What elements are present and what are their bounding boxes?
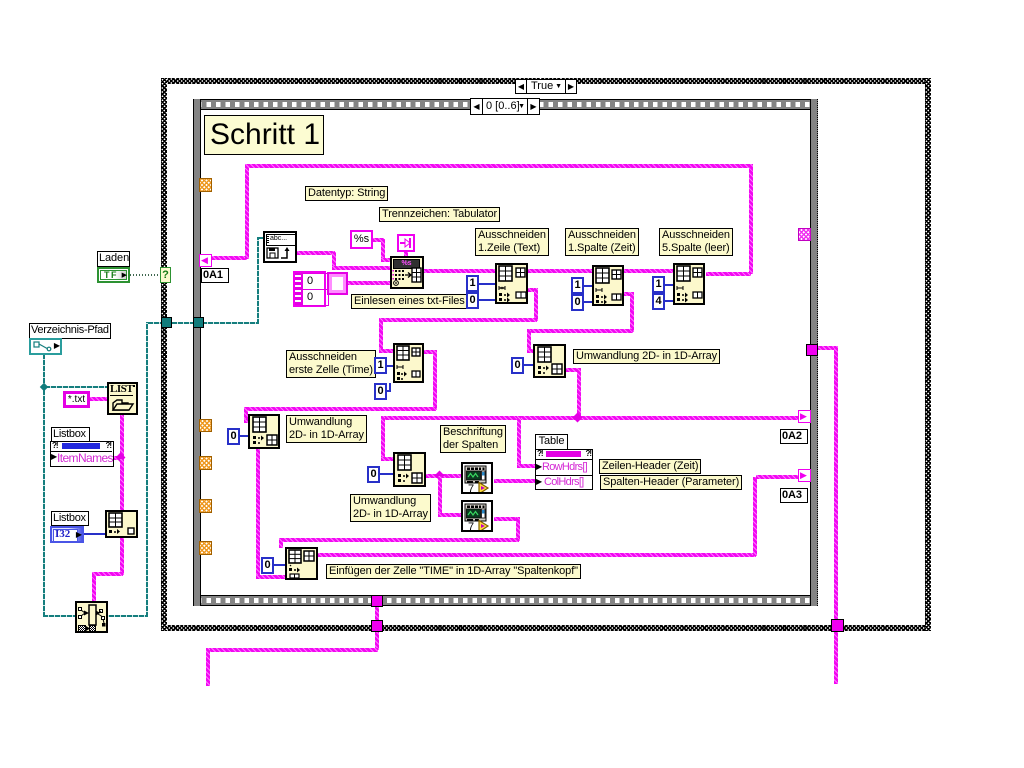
label Umwandlung mid <box>573 349 720 364</box>
teal junction diamond <box>40 383 48 391</box>
label 0A3 <box>780 488 808 503</box>
node3 delete from array (5.Spalte) <box>673 263 705 305</box>
wire pink: jog left <box>92 572 123 576</box>
label Ausschneiden 1.Zeile <box>475 228 549 256</box>
case structure border left <box>161 78 167 631</box>
teal tunnel on sequence border <box>193 317 204 328</box>
label Einlesen eines txt-Files <box>351 294 468 309</box>
sequence border left <box>193 99 201 606</box>
case structure border top <box>161 78 931 84</box>
node Umwandlung left (reshape) <box>248 414 280 449</box>
wire: erste Zelle out <box>424 350 436 354</box>
wire blue: I32 to index node <box>84 533 105 535</box>
node path/array split (bottom left) <box>75 601 108 633</box>
wire teal: stub to file node <box>259 237 265 239</box>
boolean control TF (Laden) <box>97 267 130 283</box>
node1 delete from array (1.Zeile) <box>495 263 528 304</box>
node erste Zelle delete from array <box>393 343 424 383</box>
icon1 format into string (screen) <box>461 462 493 494</box>
label 0A2 <box>780 429 808 444</box>
wire teal: Verzeichnis-Pfad down <box>43 354 45 617</box>
pink hatched tunnel top right <box>798 228 811 241</box>
svg-text:7: 7 <box>468 483 474 492</box>
wire pink: *.txt to LIST <box>90 397 107 401</box>
node read text file (abc) <box>263 231 297 263</box>
wire: bottom tunnel chain <box>375 606 379 624</box>
wire: tab const down <box>404 251 408 258</box>
magenta tunnel sequence bottom <box>371 595 383 607</box>
label Umwandlung lower <box>350 494 431 522</box>
orange tunnel 3 <box>199 456 212 470</box>
wire green dotted: TF to selector <box>130 274 161 276</box>
wire: loop right vertical <box>749 164 753 274</box>
sequence local 0A1 <box>199 254 212 267</box>
wire: icon1 out to ColHdrs <box>494 479 536 483</box>
label Ausschneiden 1.Spalte <box>565 228 639 256</box>
label Trennzeichen: Tabulator <box>379 207 500 222</box>
label Umwandlung left <box>286 415 367 443</box>
sequence selector label "0 [0..6]" <box>470 98 540 115</box>
wire: Umwandlung left out down <box>256 449 260 578</box>
string constant *.txt <box>63 391 90 408</box>
label Table <box>535 434 568 450</box>
wire: node2 to node3 <box>623 269 674 273</box>
wire: array const to node <box>346 281 391 285</box>
node LIST (list folder) <box>107 382 138 415</box>
label Verzeichnis-Pfad <box>29 323 111 339</box>
node Umwandlung lower (reshape) <box>393 452 426 487</box>
orange tunnel 2 <box>199 419 212 432</box>
wire: loop bottom into node3 <box>706 272 751 276</box>
wire: node1 to node2 <box>528 269 593 273</box>
wire: lower Umwandlung out to icons <box>426 474 462 478</box>
sequence local 0A2 <box>798 410 811 423</box>
constants for node2 <box>571 277 584 294</box>
teal tunnel on case border <box>161 317 172 328</box>
orange tunnel 4 <box>199 499 212 513</box>
orange tunnel 1 <box>199 178 212 192</box>
label Schritt 1 <box>204 115 324 155</box>
sequence border bottom <box>193 595 818 606</box>
wire pink: down to index node <box>120 459 124 575</box>
label Ausschneiden erste Zelle <box>286 350 376 378</box>
wire teal: bottom across <box>43 615 148 617</box>
wire: abc out <box>297 251 335 255</box>
node2 delete from array (1.Spalte) <box>592 265 624 306</box>
array constant 0 0 <box>293 271 326 307</box>
wire teal: junction branch to LIST <box>45 386 108 388</box>
sequence border right <box>810 99 818 606</box>
wire: icon2 out loop to Einfuegen <box>494 517 519 521</box>
label Laden <box>97 251 130 267</box>
wire: 0A1 local to loop <box>212 256 247 260</box>
wire: main 1D header bus <box>381 416 799 420</box>
wire: %s to node <box>373 238 384 242</box>
solid local on right border <box>806 344 818 356</box>
magenta tunnel case bottom right <box>831 619 844 632</box>
label Listbox (I32) <box>51 511 89 526</box>
pink junction <box>116 453 126 463</box>
magenta tunnel case bottom <box>371 620 383 632</box>
label Listbox (ItemNames) <box>51 427 90 442</box>
constant 0 for Umwandlung mid <box>511 357 524 374</box>
wire teal: up right side <box>146 322 148 617</box>
constant 0 for Umwandlung lower <box>367 466 380 483</box>
wire: loop left vertical <box>245 165 249 259</box>
constant %s <box>350 230 373 249</box>
wire teal: into case <box>148 322 258 324</box>
wire: Einlesen out to node1 <box>422 269 496 273</box>
control I32 <box>50 526 84 543</box>
constant 0 for Umwandlung left <box>227 428 240 445</box>
case selector terminal ? <box>160 267 171 283</box>
property node Listbox.ItemNames <box>50 441 114 467</box>
label 0A1 <box>201 268 229 283</box>
wire: loop top horizontal <box>245 164 753 168</box>
node index array (left) <box>105 510 138 538</box>
sequence border top <box>193 99 818 110</box>
node spreadsheet string to array (Einlesen) <box>390 256 424 289</box>
constant 0 for Einfuegen <box>261 557 274 574</box>
icon2 format into string (screen) <box>461 500 493 532</box>
wire: node1 second out down <box>528 288 537 292</box>
empty string element box <box>327 272 348 295</box>
wire pink: down to split node <box>92 575 96 602</box>
orange tunnel 5 <box>199 541 212 555</box>
junction at bus <box>573 413 583 423</box>
sequence local 0A3 <box>798 469 811 482</box>
label Beschriftung der Spalten <box>440 425 506 453</box>
wire: node2 second out down <box>623 292 633 296</box>
case selector label "True" <box>515 79 577 94</box>
node Umwandlung mid (reshape) <box>533 344 566 378</box>
wire: bus down to lower Umwandlung <box>381 416 385 459</box>
label Spalten-Header (Parameter) <box>600 475 742 490</box>
wire pink: LIST down <box>120 415 124 459</box>
wire pink: to ItemNames <box>113 456 121 460</box>
constants for node1 <box>466 275 479 292</box>
path control Verzeichnis-Pfad <box>29 338 62 355</box>
constants for erste Zelle node <box>374 357 387 374</box>
constant tab <box>397 234 415 252</box>
wire: Umwandlung mid out <box>566 368 580 372</box>
constants for node3 <box>652 276 665 293</box>
label Zeilen-Header (Zeit) <box>599 459 701 474</box>
wire: bus down to RowHdrs <box>517 416 521 466</box>
label Einfuegen der Zelle <box>326 564 581 579</box>
node Einfuegen insert into array <box>285 547 318 580</box>
wire: Einfuegen out <box>318 553 756 557</box>
case structure border right <box>925 78 931 631</box>
property node Table <box>535 449 593 490</box>
wire teal: up to file node <box>257 237 259 324</box>
label Datentyp: String <box>305 186 388 201</box>
label Ausschneiden 5.Spalte <box>659 228 733 256</box>
svg-text:7: 7 <box>468 521 474 530</box>
case structure border bottom <box>161 625 931 631</box>
wire: right local long vertical <box>817 346 838 350</box>
